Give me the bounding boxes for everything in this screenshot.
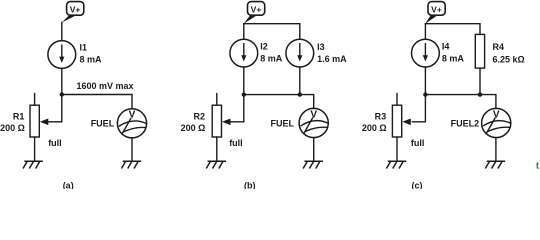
current source I4 — [412, 39, 440, 67]
svg-text:R4: R4 — [493, 42, 505, 52]
potentiometer R1 body — [30, 105, 39, 137]
svg-text:8 mA: 8 mA — [80, 55, 103, 65]
wiper arrow of R1 — [40, 119, 49, 126]
wire bottom rail (c) to meter — [425, 95, 496, 109]
wiper arrow of R3 — [402, 119, 411, 126]
wire R1 bottom to ground — [34, 137, 36, 161]
svg-text:(b): (b) — [244, 180, 256, 189]
svg-text:FUEL2: FUEL2 — [451, 118, 480, 128]
svg-text:6.25 kΩ: 6.25 kΩ — [493, 54, 525, 64]
node junction right (b) — [298, 92, 302, 96]
svg-text:V+: V+ — [70, 4, 81, 14]
ground under R1 — [23, 161, 42, 168]
svg-text:(c): (c) — [412, 180, 423, 189]
potentiometer R2 body — [212, 105, 221, 137]
node B junction left — [242, 92, 246, 96]
ground under meter (c) — [486, 161, 505, 168]
wire node A to wiper — [49, 95, 62, 122]
voltmeter FUEL2 — [482, 108, 511, 137]
wiper arrow of R2 — [222, 119, 231, 126]
svg-text:V+: V+ — [431, 4, 442, 14]
wire R1 top stub — [34, 94, 36, 106]
wire meter (b) to ground — [313, 138, 315, 162]
svg-text:V: V — [129, 110, 136, 121]
wire I3 to rail (b) — [299, 67, 301, 95]
ground under meter (a) — [122, 161, 141, 168]
current source I1 — [48, 41, 76, 69]
wire V+ to I2 — [243, 24, 245, 40]
svg-text:R1: R1 — [13, 111, 25, 121]
svg-text:200 Ω: 200 Ω — [0, 123, 25, 133]
svg-text:V+: V+ — [251, 4, 262, 14]
svg-text:R2: R2 — [193, 111, 205, 121]
svg-text:full: full — [411, 138, 425, 148]
svg-text:FUEL: FUEL — [91, 118, 115, 128]
resistor R4 body — [475, 34, 484, 68]
ground under R2 — [207, 161, 226, 168]
wire R4 to rail (c) — [479, 68, 481, 95]
svg-text:R3: R3 — [375, 112, 387, 122]
wire R3 top stub — [396, 94, 398, 106]
ground under R3 — [387, 161, 406, 168]
node C junction left — [423, 92, 427, 96]
wire I4 to node C — [424, 67, 426, 95]
potentiometer R3 body — [392, 105, 401, 137]
wire V+ top rail (c) — [425, 24, 480, 35]
svg-text:(a): (a) — [63, 180, 74, 189]
svg-text:8 mA: 8 mA — [442, 53, 465, 63]
wire I1 to node A — [61, 68, 63, 94]
node A junction (a) — [60, 92, 64, 96]
svg-text:I3: I3 — [317, 42, 325, 52]
node junction right (c) — [478, 92, 482, 96]
wire node C to wiper (c) — [412, 95, 425, 122]
svg-text:V: V — [310, 109, 317, 120]
svg-text:1.6 mA: 1.6 mA — [317, 54, 347, 64]
wire V+ to I1 — [61, 22, 63, 40]
svg-text:I2: I2 — [260, 41, 268, 51]
wire I2 to node B — [243, 67, 245, 95]
svg-text:I1: I1 — [80, 43, 88, 53]
wire node A to meter branch — [62, 95, 132, 109]
wire bottom rail (b) to meter — [244, 95, 314, 109]
svg-text:V: V — [493, 109, 500, 120]
svg-text:8 mA: 8 mA — [260, 53, 283, 63]
wire R3 bottom to ground — [396, 137, 398, 161]
voltmeter FUEL (a) — [117, 109, 146, 138]
net V+ callout (c) — [425, 2, 445, 24]
svg-text:full: full — [48, 138, 62, 148]
svg-text:FUEL: FUEL — [271, 118, 295, 128]
wire R2 top stub — [216, 94, 218, 106]
wire V+ top rail (b) — [244, 24, 300, 40]
svg-text:1600 mV max: 1600 mV max — [77, 81, 134, 91]
current source I2 — [230, 39, 258, 67]
wire meter (a) to ground — [131, 138, 133, 161]
wire R2 bottom to ground — [216, 137, 218, 161]
current source I3 — [286, 39, 314, 67]
voltmeter FUEL (b) — [299, 108, 328, 137]
svg-text:200 Ω: 200 Ω — [181, 123, 206, 133]
net V+ callout (a) — [62, 2, 84, 23]
svg-text:200 Ω: 200 Ω — [362, 123, 387, 133]
wire node B to wiper (b) — [231, 95, 244, 122]
svg-text:I4: I4 — [442, 41, 450, 51]
net V+ callout (b) — [244, 2, 265, 24]
wire V+ to I4 — [424, 24, 426, 40]
stray green mark t — [536, 161, 540, 172]
svg-text:full: full — [229, 138, 243, 148]
ground under meter (b) — [304, 161, 323, 168]
wire meter (c) to ground — [495, 138, 497, 162]
